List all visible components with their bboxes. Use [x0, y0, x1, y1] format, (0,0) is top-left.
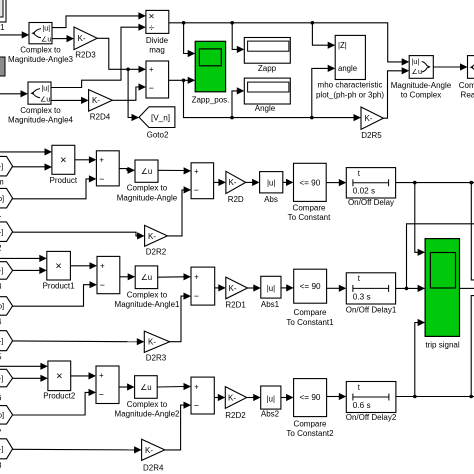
svg-text:-]: -]: [0, 445, 3, 454]
wire D2R2 output up to Sum2 minus (row1): [167, 190, 184, 236]
svg-text:<= 90: <= 90: [300, 393, 321, 402]
node to trip port3: [413, 395, 417, 399]
svg-text:∠u: ∠u: [412, 67, 422, 76]
wire tag4 to Product1 port2: [13, 269, 40, 271]
wire down to Zapp display input: [232, 23, 237, 50]
display block Angle: [244, 78, 290, 104]
node to trip port1: [413, 181, 417, 185]
svg-text:Compare: Compare: [294, 419, 327, 428]
block On/Off Delay: [346, 168, 395, 198]
svg-text:−: −: [194, 400, 199, 410]
from tag 8 [b]: [0, 406, 13, 425]
svg-text:mag: mag: [149, 46, 165, 55]
svg-text:Magnitude-Angle4: Magnitude-Angle4: [8, 116, 73, 125]
wire Sum1 output to Complex to Magnitude-Angle: [119, 169, 128, 171]
svg-text:r1: r1: [0, 23, 5, 32]
svg-text:−: −: [99, 174, 104, 184]
svg-text:K-: K-: [148, 338, 156, 347]
wire up to Angle display input: [232, 91, 237, 118]
svg-text:-]: -]: [0, 228, 3, 237]
block Compare To Constant2: [294, 379, 327, 417]
svg-text:Real-Imag: Real-Imag: [461, 91, 474, 100]
svg-text:K-: K-: [78, 34, 86, 43]
wire row3 Sum1 output to Complex to Magnitude-Angle2: [119, 386, 128, 388]
svg-text:Complex to: Complex to: [20, 106, 61, 115]
svg-text:Product2: Product2: [43, 392, 76, 401]
svg-text:×: ×: [148, 11, 154, 23]
wire tag6 to D2R3: [13, 340, 138, 343]
wire R2D1 to Abs1: [248, 287, 254, 289]
block U1 Complex to Magnitude-Angle3: [29, 23, 52, 44]
scope block (partially visible, top-left corner): [0, 0, 6, 22]
svg-text:Zapp: Zapp: [258, 64, 277, 73]
svg-text:<= 90: <= 90: [300, 282, 321, 291]
wire stub exiting right at y288: [460, 287, 474, 289]
product block Product1: [47, 251, 71, 280]
sum block row3: [96, 366, 119, 404]
node right edge row3: [469, 395, 473, 399]
svg-text:D2R3: D2R3: [146, 354, 167, 363]
from tag 4: [0, 262, 13, 280]
svg-text:|u|: |u|: [412, 57, 420, 66]
svg-text:0.02 s: 0.02 s: [353, 187, 375, 196]
wire down to mho characteristic |Z| input: [312, 23, 328, 45]
sum block row1: [96, 151, 119, 186]
svg-text:|u|: |u|: [42, 24, 50, 33]
svg-text:×: ×: [56, 371, 62, 383]
wire tag5 up to row2 Sum1 minus port: [13, 285, 90, 307]
svg-text:Compare: Compare: [294, 308, 327, 317]
wire row3 Sum2 output to R2D2: [214, 397, 218, 399]
sum block 2 row1: [191, 163, 214, 199]
svg-text:|u|: |u|: [267, 284, 275, 293]
svg-text:K-: K-: [148, 232, 156, 241]
gain D2R2: [145, 225, 168, 246]
block mho characteristic plot: [335, 35, 365, 79]
svg-text:K-: K-: [365, 114, 373, 123]
block Magnitude-Angle to Complex: [409, 56, 433, 79]
wire R2D2 to Abs2: [247, 397, 254, 399]
svg-text:+: +: [100, 262, 105, 271]
product block Product2: [48, 361, 71, 391]
svg-text:[V_n]: [V_n]: [151, 114, 170, 123]
node to Zapp_pos port1: [182, 21, 186, 25]
block Complex to Real-Imag (partially visible, right edge): [468, 56, 474, 79]
svg-text:÷: ÷: [149, 22, 155, 34]
svg-text:R2D1: R2D1: [225, 301, 246, 310]
svg-text:-]: -]: [0, 266, 3, 275]
wire Sum2 output to R2D: [214, 181, 219, 183]
wire Compare To Constant2 to On/Off Delay2: [327, 396, 340, 398]
wire row2 Sum1 output to Complex to Magnitude-Angle1: [120, 276, 128, 278]
wire Compare To Constant to On/Off Delay: [326, 182, 339, 184]
wire MAC output to Complex to Real-Imag: [433, 66, 460, 68]
wire CM4 angle output to R2D4: [51, 99, 82, 101]
svg-text:+: +: [194, 273, 199, 282]
svg-text:Abs: Abs: [264, 195, 278, 204]
wire On/Off Delay2 output bus (row3): [396, 396, 474, 398]
sum block 2 row3: [191, 377, 214, 414]
node up to mho angle input: [310, 116, 314, 120]
wire down to Zapp_pos port1: [184, 23, 188, 54]
svg-text:Complex to: Complex to: [459, 81, 474, 90]
wire Divide output bus (top): [169, 23, 402, 62]
svg-text:K-: K-: [229, 284, 237, 293]
wire CM2 output to row3 Sum2 plus: [157, 386, 184, 389]
wire up to trip signal port3: [415, 323, 418, 397]
svg-text:Magnitude-Angle: Magnitude-Angle: [117, 193, 178, 202]
svg-text:Zapp_pos.: Zapp_pos.: [192, 96, 230, 105]
wire Product output to Sum1 plus: [75, 159, 90, 161]
svg-text:Magnitude-Angle2: Magnitude-Angle2: [115, 410, 180, 419]
wire Sum output to Zapp_pos port2: [169, 79, 188, 81]
svg-text:K-: K-: [228, 393, 236, 402]
svg-text:+: +: [194, 167, 199, 176]
wire branch down to Goto2: [128, 69, 132, 117]
product block Product: [52, 145, 75, 174]
wire row2 Sum2 output to R2D1: [215, 287, 219, 289]
wire tag3 to D2R2: [13, 232, 138, 236]
wire tag1 to Product port2: [13, 166, 45, 168]
block On/Off Delay1: [346, 273, 395, 304]
svg-text:Abs1: Abs1: [261, 300, 280, 309]
from tag 9: [0, 439, 13, 459]
svg-text:|u|: |u|: [41, 84, 49, 93]
svg-text:-]: -]: [0, 374, 3, 383]
svg-text:to Complex: to Complex: [401, 91, 441, 100]
wire On/Off Delay output bus (row1): [396, 182, 474, 184]
from tag 2 [b]: [0, 188, 13, 208]
sum block (top): [146, 61, 169, 98]
wire CM output to Sum2 plus (row1): [158, 169, 184, 172]
svg-text:Complex to: Complex to: [127, 290, 168, 299]
wire Abs2 to Compare To Constant2: [281, 397, 287, 399]
svg-text:∠u: ∠u: [140, 383, 151, 392]
svg-text:b]: b]: [0, 411, 4, 420]
svg-text:+: +: [194, 383, 199, 392]
svg-text:Angle: Angle: [255, 104, 276, 113]
svg-text:On/Off Delay: On/Off Delay: [348, 198, 394, 207]
svg-text:−: −: [99, 389, 104, 399]
svg-text:K-: K-: [92, 96, 100, 105]
node to mho |Z| input: [311, 21, 315, 25]
abs block Abs: [260, 172, 283, 193]
wire tag8 up to row3 Sum1 minus port: [13, 392, 89, 415]
svg-text:On/Off Delay2: On/Off Delay2: [346, 413, 397, 422]
svg-text:−: −: [100, 280, 105, 290]
gain R2D1: [226, 277, 248, 299]
gain D2R3: [144, 331, 169, 352]
svg-text:trip signal: trip signal: [425, 341, 459, 350]
svg-text:∠u: ∠u: [141, 273, 152, 282]
svg-text:Complex to: Complex to: [20, 45, 61, 54]
wire right edge down exit: [471, 183, 474, 280]
wire R2D3 output to Sum plus port: [97, 38, 139, 69]
block Complex to Magnitude-Angle2: [135, 376, 158, 399]
block Divide mag: [146, 10, 169, 33]
svg-text:R2D3: R2D3: [75, 51, 96, 60]
svg-text:|u|: |u|: [267, 394, 275, 403]
from tag 3: [0, 222, 13, 242]
wire CM3 angle output to R2D3: [52, 38, 67, 40]
svg-text:Magnitude-Angle1: Magnitude-Angle1: [115, 300, 180, 309]
svg-text:D2R4: D2R4: [143, 463, 164, 472]
svg-text:∠u: ∠u: [41, 34, 51, 43]
node on sum output: [182, 79, 186, 83]
svg-text:angle: angle: [338, 64, 357, 73]
svg-text:plot_(ph-ph or 3ph): plot_(ph-ph or 3ph): [316, 90, 384, 99]
wire On/Off Delay1 output to trip port2: [396, 287, 418, 289]
svg-text:-]: -]: [0, 162, 3, 171]
svg-text:−: −: [194, 291, 199, 301]
wire CM1 output to row2 Sum2 plus: [158, 276, 184, 278]
svg-text:∠u: ∠u: [40, 95, 50, 104]
from tag 6: [0, 331, 13, 351]
block Complex to Magnitude-Angle (row1): [135, 160, 158, 182]
node to Zapp display: [230, 21, 234, 25]
wire Compare To Constant1 to On/Off Delay1: [327, 287, 340, 289]
node right edge row1: [470, 181, 474, 185]
svg-text:D2R5: D2R5: [361, 131, 382, 140]
svg-text:0.6 s: 0.6 s: [353, 401, 371, 410]
sum block row2: [97, 256, 120, 293]
node branch to Goto2: [126, 68, 130, 72]
svg-text:mho characteristic: mho characteristic: [318, 81, 383, 90]
svg-text:R2D2: R2D2: [225, 411, 246, 420]
wire branch down and right to D2R5 input: [184, 80, 355, 117]
svg-text:×: ×: [60, 155, 66, 167]
scope Zapp_pos. (green): [195, 41, 225, 92]
wire right edge up entry (row3): [471, 296, 474, 397]
gain R2D4: [89, 90, 113, 112]
svg-text:Product1: Product1: [43, 282, 76, 291]
gain R2D3: [74, 27, 97, 50]
svg-text:Abs2: Abs2: [261, 410, 280, 419]
wire tag7 to Product2 port2: [13, 377, 41, 379]
wire (off-screen source) to Product2 port1: [0, 365, 41, 367]
block Compare To Constant: [294, 163, 327, 201]
scope trip signal (green): [425, 239, 459, 337]
wire D2R5 output up to Magnitude-Angle to Complex port2: [383, 71, 402, 118]
gain D2R4: [142, 439, 165, 460]
node up to Angle display: [230, 116, 234, 120]
wire up from node and right exit (row2): [407, 224, 474, 289]
svg-text:+: +: [149, 65, 154, 74]
wire Abs to Compare To Constant: [283, 181, 287, 183]
sum block 2 row2: [191, 267, 215, 305]
from tag 7: [0, 369, 13, 387]
svg-text:R2D: R2D: [228, 195, 244, 204]
wire R2D to Abs: [246, 181, 253, 183]
svg-text:Magnitude-Angle: Magnitude-Angle: [391, 81, 452, 90]
display block Zapp: [244, 38, 290, 64]
svg-text:0.3 s: 0.3 s: [353, 293, 371, 302]
svg-text:|u|: |u|: [267, 178, 275, 187]
goto tag Goto2 [V_n]: [139, 107, 175, 128]
node on row2 output: [405, 287, 409, 291]
abs block Abs2: [261, 386, 281, 409]
wire Product2 output to row3 Sum1 plus: [71, 375, 89, 377]
block Complex to Magnitude-Angle1: [135, 266, 158, 289]
svg-text:−: −: [149, 83, 154, 93]
abs block Abs1: [261, 276, 281, 298]
block On/Off Delay2: [346, 382, 396, 413]
svg-text:K-: K-: [229, 178, 237, 187]
wire tag2 up to Sum1 minus port: [13, 179, 90, 199]
svg-text:K-: K-: [145, 446, 153, 455]
wire down to trip signal port1: [415, 183, 418, 253]
svg-text:|Z|: |Z|: [338, 41, 347, 50]
svg-text:Magnitude-Angle3: Magnitude-Angle3: [8, 55, 73, 64]
wire tag9 to D2R4: [13, 448, 135, 451]
wire D2R4 output up to row3 Sum2 minus: [165, 405, 184, 450]
from tag 5 [b]: [0, 297, 13, 316]
svg-text:To Constant2: To Constant2: [286, 429, 334, 438]
wire CM3 |u| output to Divide port1: [52, 16, 139, 28]
gain D2R5: [361, 107, 383, 129]
gain R2D2: [225, 387, 246, 409]
wire Abs1 to Compare To Constant1: [281, 287, 287, 289]
wire R2D4 output to Sum minus port: [112, 87, 139, 100]
input port block (gray, left edge): [0, 57, 5, 76]
svg-text:<= 90: <= 90: [299, 178, 320, 187]
svg-text:×: ×: [55, 261, 61, 273]
svg-text:−: −: [194, 185, 199, 195]
svg-text:b]: b]: [0, 194, 4, 203]
svg-text:∠u: ∠u: [141, 167, 152, 176]
block Compare To Constant1: [294, 269, 327, 303]
gain R2D: [226, 171, 246, 193]
svg-text:R2D4: R2D4: [90, 113, 111, 122]
wire D2R3 output up to row2 Sum2 minus: [170, 296, 184, 342]
svg-text:Complex to: Complex to: [127, 400, 168, 409]
svg-text:Goto2: Goto2: [147, 130, 169, 139]
svg-text:+: +: [99, 371, 104, 380]
svg-text:Compare: Compare: [293, 203, 326, 212]
wire (off-screen source) to Product port1: [0, 151, 45, 153]
block U2 Complex to Magnitude-Angle4: [28, 82, 51, 104]
wire into Complex to Magnitude-Angle4: [0, 93, 21, 95]
wire CM4 |u| output to Divide port2: [51, 27, 139, 87]
svg-text:-]: -]: [0, 337, 3, 346]
wire (off-screen source) to Product1 port1: [0, 257, 40, 259]
svg-text:b]: b]: [0, 302, 4, 311]
wire up to mho characteristic angle input: [312, 68, 328, 117]
from tag 1 (row1 product input): [0, 156, 13, 176]
svg-text:On/Off Delay1: On/Off Delay1: [346, 306, 397, 315]
svg-text:To Constant: To Constant: [288, 213, 331, 222]
svg-text:Complex to: Complex to: [127, 184, 168, 193]
svg-text:Product: Product: [50, 176, 78, 185]
svg-text:To Constant1: To Constant1: [286, 318, 334, 327]
svg-text:D2R2: D2R2: [146, 247, 167, 256]
wire Product1 output to row2 Sum1 plus: [70, 265, 90, 267]
svg-text:m: m: [0, 178, 4, 187]
wire into Complex to Magnitude-Angle3: [0, 34, 23, 36]
svg-text:Divide: Divide: [146, 36, 169, 45]
svg-text:+: +: [99, 155, 104, 164]
